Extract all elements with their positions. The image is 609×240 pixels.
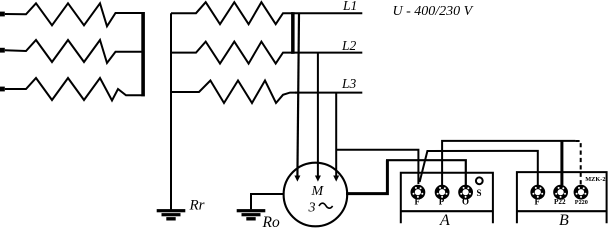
left bank terminal square T3 [0, 87, 5, 92]
resistor left-bank row2 [5, 40, 142, 63]
wire line L1 [291, 12, 362, 14]
terminal O of box A [458, 185, 473, 200]
box A outline [401, 173, 493, 223]
resistor middle-bank row1 [171, 2, 293, 24]
terminal P22 of box B [553, 185, 568, 200]
svg-text:Rr: Rr [189, 198, 205, 214]
terminal P220 of box B [574, 185, 589, 200]
svg-text:F: F [535, 197, 541, 207]
ground symbol Rr [157, 209, 186, 220]
arrowhead phase3 [333, 176, 339, 182]
svg-text:MZK-2: MZK-2 [585, 176, 605, 183]
svg-text:B: B [559, 212, 569, 229]
left bank terminal square T1 [0, 12, 5, 17]
middle bank left bus wire [170, 13, 172, 209]
wire L3 branch to terminal F of A [336, 150, 418, 184]
terminal F of box B [530, 185, 545, 200]
wire line L3 [295, 92, 362, 94]
wire motor to terminal O [346, 160, 387, 193]
svg-text:L2: L2 [341, 38, 357, 53]
left bank bus bar [141, 12, 145, 96]
left bank terminal square T2 [0, 48, 5, 53]
AC wave symbol [319, 203, 333, 208]
svg-text:3: 3 [308, 201, 316, 216]
dashed wire to terminal P220 of B [575, 141, 580, 185]
svg-text:S: S [477, 188, 482, 198]
wire terminal P of A to terminal P22 of B [442, 141, 575, 185]
svg-text:U - 400/230 V: U - 400/230 V [393, 4, 474, 19]
svg-text:P220: P220 [575, 199, 588, 206]
ground symbol Ro [237, 209, 266, 220]
svg-text:P22: P22 [554, 198, 566, 206]
wire drop phase3 to motor [335, 93, 337, 178]
wire Ro to motor [251, 193, 285, 195]
svg-text:O: O [462, 197, 469, 207]
svg-text:A: A [439, 212, 450, 229]
wire drop phase1 to motor [297, 13, 299, 177]
resistor left-bank row1 [5, 3, 142, 26]
wire terminal F of A to terminal F of B [420, 151, 538, 185]
arrowhead phase1 [294, 176, 300, 182]
svg-text:M: M [311, 184, 325, 199]
wire Ro drop [250, 193, 252, 209]
resistor middle-bank row2 [171, 42, 293, 64]
terminal P of box A [435, 185, 450, 200]
wire line L2 [291, 52, 362, 54]
terminal S small circle [476, 177, 483, 184]
resistor middle-bank row3 [171, 81, 297, 104]
middle bank bus bar [291, 12, 295, 54]
motor M1 circle [284, 163, 348, 227]
svg-text:L3: L3 [341, 76, 357, 91]
svg-text:F: F [415, 197, 421, 207]
wire drop phase2 to motor [317, 53, 319, 178]
svg-text:P: P [439, 197, 445, 207]
terminal F of box A [411, 185, 426, 200]
box B outline [517, 172, 607, 223]
arrowhead phase2 [315, 176, 321, 182]
svg-text:L1: L1 [342, 0, 357, 13]
svg-text:Ro: Ro [262, 214, 280, 231]
resistor left-bank row3 [5, 78, 142, 101]
